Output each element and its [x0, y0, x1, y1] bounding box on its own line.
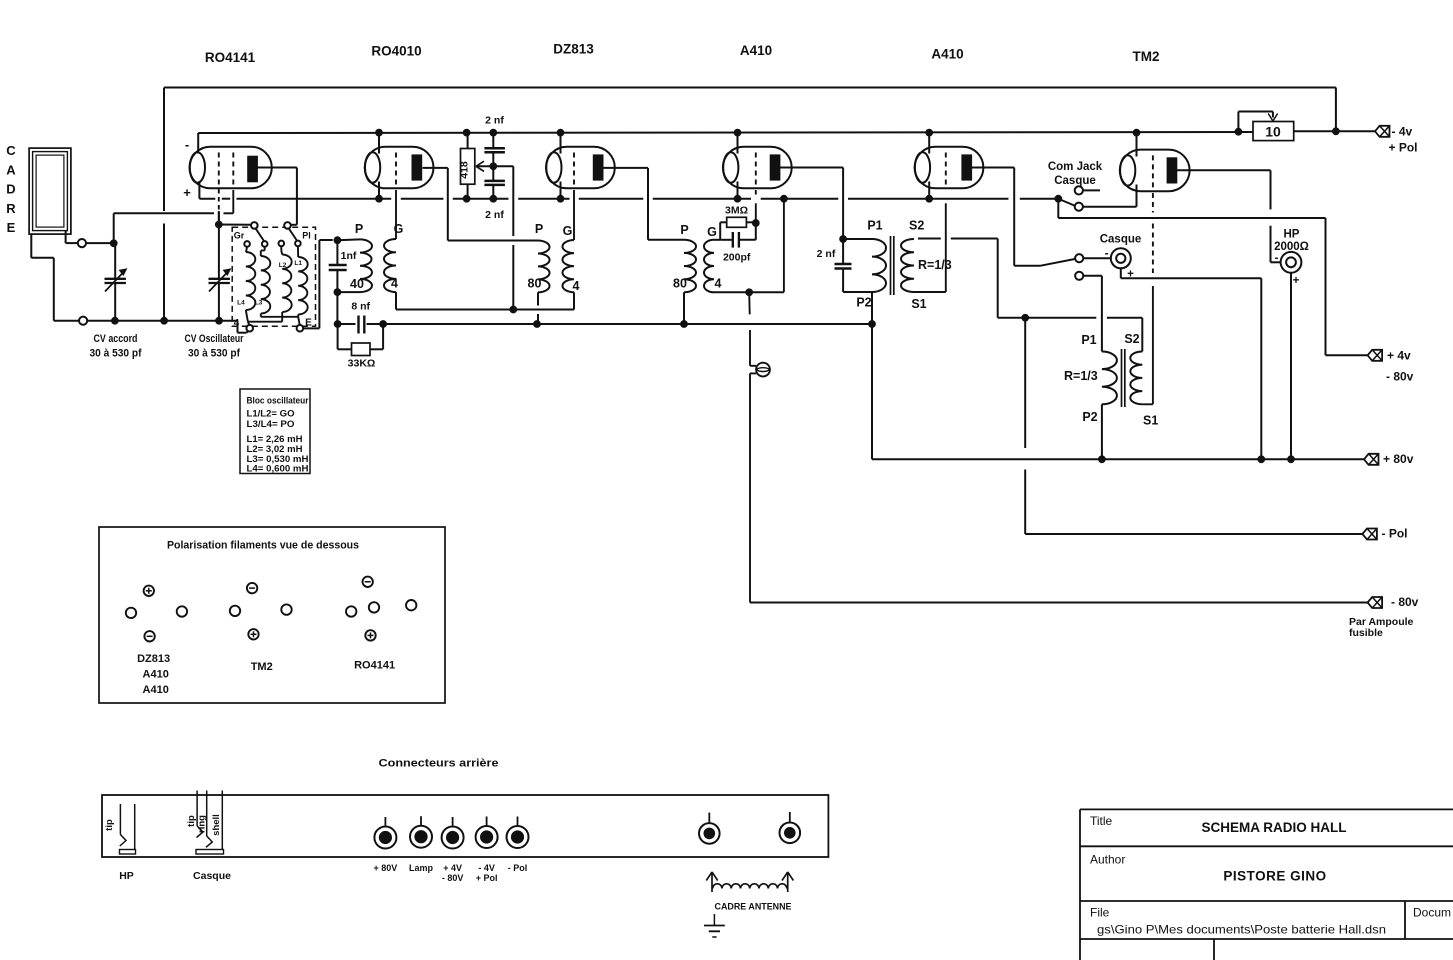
- binding post +4V -80V: [442, 817, 464, 849]
- svg-text:P2: P2: [856, 296, 871, 310]
- svg-text:80: 80: [673, 277, 687, 291]
- svg-text:-: -: [185, 137, 189, 152]
- svg-text:P: P: [535, 222, 543, 236]
- svg-text:A410: A410: [931, 47, 963, 62]
- label tube V6 TM2: [1133, 49, 1160, 64]
- svg-text:8 nf: 8 nf: [351, 301, 370, 313]
- tube V1 plate: [248, 156, 258, 182]
- svg-text:4: 4: [391, 277, 398, 291]
- svg-text:- 4V: - 4V: [478, 863, 495, 873]
- svg-text:G: G: [707, 225, 717, 239]
- wire top bus (-4v rail): [164, 88, 1336, 321]
- svg-text:Author: Author: [1090, 853, 1125, 867]
- label P (T2): [535, 222, 543, 236]
- wire T3 secondary bottom return: [714, 199, 784, 296]
- label DZ813 A410 A410: [137, 653, 170, 696]
- transformer T5 secondary: [1130, 352, 1142, 405]
- svg-text:Casque: Casque: [1100, 234, 1142, 246]
- label P (T3): [680, 223, 688, 237]
- junction dots on filament bottom bus: [375, 195, 1062, 203]
- svg-text:DZ813: DZ813: [137, 653, 170, 665]
- wire AVC line: [396, 306, 574, 314]
- transformer T5 core: [1122, 349, 1125, 407]
- label Com Jack Casque: [1048, 161, 1103, 187]
- capacitor CV Oscillateur (variable): [209, 212, 231, 321]
- svg-text:Connecteurs arrière: Connecteurs arrière: [379, 758, 499, 770]
- label 4: [234, 318, 240, 329]
- wire terminal E to T1 node: [303, 240, 333, 328]
- label CV accord value: [90, 333, 142, 360]
- capacitor 8 nf: [338, 316, 387, 334]
- label HP 2000: [1274, 229, 1309, 254]
- svg-text:tip: tip: [186, 815, 197, 827]
- svg-text:DZ813: DZ813: [553, 42, 594, 57]
- label P2 (T5): [1082, 410, 1097, 424]
- label P2 (T4): [856, 296, 871, 310]
- svg-text:C: C: [6, 143, 16, 158]
- wire V6 filament top: [1136, 132, 1138, 156]
- rheostat 10: [1235, 112, 1294, 141]
- label 80 (T3): [673, 277, 687, 291]
- binding post Lamp: [410, 816, 432, 848]
- label R=1/3 (T4): [918, 258, 952, 272]
- wire CADRE inner end to top terminal: [66, 231, 78, 244]
- terminal CADRE top: [78, 239, 86, 247]
- terminal coil tap 1: [244, 241, 250, 247]
- label 4 (T3): [715, 277, 722, 291]
- wire L4-L2 bottom link: [246, 310, 282, 325]
- wire V2 filament top: [378, 133, 380, 154]
- label tube V4 A410: [740, 43, 772, 58]
- diagram box Polarisation filaments: [99, 527, 445, 703]
- label CV Oscillateur value: [185, 333, 245, 360]
- inductor L1: [298, 246, 308, 314]
- svg-text:+ 4v: + 4v: [1387, 349, 1411, 363]
- wire wiper to AVC junction: [493, 166, 513, 309]
- label 8 nf: [351, 301, 370, 313]
- label CADRE ANTENNE: [715, 902, 792, 913]
- label P (T1): [355, 222, 363, 236]
- wire V4 filament top: [737, 133, 739, 154]
- transformer T1 secondary 4: [384, 239, 396, 292]
- label Connecteurs arriere: [379, 758, 499, 770]
- svg-text:File: File: [1090, 906, 1110, 920]
- label P1 (T4): [867, 219, 882, 233]
- wire V5 plate to casque switch: [972, 168, 1076, 266]
- capacitor 1nf: [329, 240, 347, 292]
- wire filament top bus: [198, 132, 1253, 133]
- svg-text:Lamp: Lamp: [409, 863, 434, 873]
- wire V1 grid2 to tuning node: [114, 190, 234, 243]
- label V1 filament +: [183, 185, 191, 200]
- transformer T3 primary 80: [684, 240, 696, 293]
- svg-text:R=1/3: R=1/3: [1064, 369, 1098, 383]
- svg-text:3MΩ: 3MΩ: [725, 205, 748, 217]
- label 2 nf (T4): [817, 248, 836, 260]
- tube V6 TM2: [1120, 150, 1190, 192]
- svg-text:- Pol: - Pol: [1382, 527, 1408, 541]
- wire switch to +4v feed line: [1058, 199, 1367, 356]
- label Title: [1090, 814, 1347, 835]
- svg-text:RO4141: RO4141: [205, 50, 256, 65]
- label Casque connector: [193, 870, 231, 882]
- svg-text:L4= 0,600 mH: L4= 0,600 mH: [247, 464, 309, 474]
- svg-text:E: E: [305, 318, 312, 329]
- wire V5 filament top: [928, 133, 930, 154]
- svg-text:SCHEMA RADIO HALL: SCHEMA RADIO HALL: [1202, 819, 1347, 835]
- tube V1 RO4141 (bigrille): [190, 147, 272, 189]
- wire V6 filament bottom to jack switch: [1083, 185, 1136, 207]
- label 80 (T2): [528, 277, 542, 291]
- rheostat 418: [459, 133, 475, 199]
- svg-text:200pf: 200pf: [723, 252, 751, 264]
- svg-text:P1: P1: [867, 219, 882, 233]
- wire V5 filament bottom: [928, 182, 930, 199]
- svg-text:TM2: TM2: [1133, 49, 1160, 64]
- svg-text:+ Pol: + Pol: [476, 873, 498, 883]
- terminal oscillator E: [297, 325, 304, 332]
- svg-text:Bloc oscillateur: Bloc oscillateur: [247, 396, 309, 406]
- svg-text:- 80v: - 80v: [1386, 370, 1414, 384]
- svg-text:P: P: [355, 222, 363, 236]
- svg-text:- 4v: - 4v: [1392, 124, 1413, 138]
- wire V4 plate to T4 primary: [779, 168, 843, 240]
- svg-text:S1: S1: [911, 297, 926, 311]
- binding post cadre left: [699, 813, 720, 844]
- terminal coil tap 3: [279, 241, 285, 247]
- antenna cadre coil symbol: [706, 872, 793, 892]
- label 1nf: [341, 250, 357, 262]
- wire Pl selector lever: [289, 228, 298, 241]
- svg-text:2 nf: 2 nf: [485, 209, 504, 221]
- wire CADRE outer end to bottom terminal: [31, 234, 79, 321]
- wire V3 filament bottom: [560, 182, 562, 199]
- label 200pf: [723, 252, 751, 264]
- svg-text:L3= 0,530 mH: L3= 0,530 mH: [247, 454, 309, 464]
- svg-text:D: D: [6, 182, 15, 197]
- svg-text:80: 80: [528, 277, 542, 291]
- svg-text:A410: A410: [143, 669, 169, 681]
- wire -Pol line: [1025, 318, 1362, 534]
- wire antenna node to CV accord: [86, 239, 118, 247]
- terminal -80v: [1349, 595, 1419, 639]
- oscillator block dashed box: [232, 227, 315, 326]
- wire V3 plate to T3 primary: [603, 168, 684, 240]
- socket DZ813/A410 pins: [126, 586, 187, 642]
- svg-text:4: 4: [573, 279, 580, 293]
- svg-text:PISTORE GINO: PISTORE GINO: [1223, 869, 1326, 884]
- svg-text:RO4141: RO4141: [354, 660, 395, 672]
- wire T5 P2 to 80v bus: [1101, 404, 1103, 459]
- tube V5 A410 output: [915, 147, 984, 189]
- svg-text:L1= 2,26 mH: L1= 2,26 mH: [247, 434, 303, 444]
- tube V3 DZ813: [546, 147, 615, 189]
- node T1 top (P/1nf junction): [334, 236, 361, 244]
- svg-text:-: -: [1105, 248, 1109, 260]
- svg-text:HP: HP: [119, 870, 134, 882]
- panel rear connectors: [102, 795, 828, 857]
- wire 80v bus: [872, 455, 1364, 463]
- wire V3 filament top: [560, 133, 562, 154]
- wire T2 secondary bottom to AVC: [573, 292, 575, 309]
- label tube V2 RO4010: [371, 44, 421, 59]
- svg-text:- 80v: - 80v: [1391, 595, 1419, 609]
- wire Gr selector lever: [256, 228, 265, 241]
- terminal -Pol: [1362, 527, 1407, 541]
- svg-text:33KΩ: 33KΩ: [348, 358, 376, 370]
- svg-text:1nf: 1nf: [341, 250, 357, 262]
- svg-text:-: -: [1275, 253, 1279, 265]
- label P1 (T5): [1081, 333, 1096, 347]
- capacitor 2 nf upper: [484, 133, 505, 167]
- wire -Pol junction to T5 S2: [1025, 318, 1142, 352]
- svg-text:G: G: [563, 224, 573, 238]
- ground symbol: [704, 914, 725, 937]
- svg-text:30 à 530 pf: 30 à 530 pf: [90, 348, 142, 360]
- label RO4141 socket: [354, 660, 395, 672]
- transformer T5 primary: [1102, 352, 1117, 405]
- svg-text:CV Oscillateur: CV Oscillateur: [185, 333, 245, 345]
- terminal oscillator Gr: [251, 222, 258, 229]
- svg-text:L1/L2= GO: L1/L2= GO: [247, 409, 295, 419]
- svg-text:+ 4V: + 4V: [443, 863, 462, 873]
- svg-text:A: A: [6, 162, 16, 177]
- text box Bloc oscillateur: [240, 389, 310, 474]
- wire T3 primary bottom to HT rail: [683, 292, 685, 324]
- svg-text:30 à 530 pf: 30 à 530 pf: [188, 348, 240, 360]
- label 4 (T1): [391, 277, 398, 291]
- svg-text:TM2: TM2: [251, 661, 273, 673]
- svg-text:P2: P2: [1082, 410, 1097, 424]
- svg-text:S2: S2: [909, 219, 924, 233]
- svg-text:gs\Gino P\Mes documents\Poste: gs\Gino P\Mes documents\Poste batterie H…: [1097, 923, 1386, 937]
- svg-text:shell: shell: [211, 814, 222, 836]
- binding post -Pol: [507, 817, 529, 849]
- tube V4 A410 detector: [723, 147, 792, 189]
- label L2: [279, 262, 287, 269]
- wire L3-L1 bottom link: [261, 314, 300, 325]
- terminal CADRE bottom: [79, 317, 87, 325]
- transformer T2 primary 80: [538, 241, 550, 293]
- wire -80v line: [750, 602, 1368, 604]
- wire V1 filament top to bus: [197, 133, 199, 154]
- switch com jack contact bottom: [1075, 203, 1083, 211]
- svg-text:- 80V: - 80V: [442, 873, 464, 883]
- wire V6 grid to T5 S1: [1142, 193, 1153, 404]
- svg-text:L2: L2: [279, 262, 287, 269]
- wire T2 primary bottom to HT rail: [537, 292, 539, 324]
- label S2 (T4): [909, 219, 924, 233]
- svg-text:+ Pol: + Pol: [1389, 140, 1418, 154]
- connector HP jack symbol: [104, 804, 136, 854]
- label Pl: [302, 231, 311, 241]
- resistor 3M grid leak: [727, 217, 747, 227]
- wire V3 grid to T2 secondary: [573, 190, 575, 240]
- node grid leak right: [746, 219, 759, 240]
- svg-text:+ 80V: + 80V: [374, 863, 398, 873]
- svg-text:+: +: [1293, 275, 1300, 287]
- wire V5 grid to T4 S1: [914, 203, 946, 292]
- tube V2 RO4010: [365, 147, 434, 189]
- svg-text:2 nf: 2 nf: [817, 248, 836, 260]
- label S1 (T5): [1143, 414, 1158, 428]
- transformer T2 secondary 4: [562, 240, 574, 292]
- jack HP: [1275, 252, 1302, 287]
- junction dots on filament top bus: [375, 129, 1140, 137]
- label File: [1090, 906, 1386, 937]
- label Gr: [234, 231, 245, 241]
- svg-text:40: 40: [350, 277, 364, 291]
- svg-text:CADRE ANTENNE: CADRE ANTENNE: [715, 902, 792, 913]
- transformer T4 core: [891, 236, 894, 295]
- svg-text:R=1/3: R=1/3: [918, 258, 952, 272]
- label V1 filament -: [185, 137, 189, 152]
- label 40: [350, 277, 364, 291]
- wire T4 S2 to -Pol junction: [918, 239, 1029, 322]
- capacitor 2 nf (T4): [835, 239, 873, 292]
- label G (T3): [707, 225, 717, 239]
- label G (T1): [394, 222, 404, 236]
- svg-text:G: G: [394, 222, 404, 236]
- wire T1 secondary bottom to AVC line: [395, 292, 397, 309]
- svg-text:Polarisation filaments vue de: Polarisation filaments vue de dessous: [167, 540, 359, 552]
- label 33K value: [348, 358, 376, 370]
- title block frame: [1080, 809, 1453, 960]
- wire T4 P2 to HT rail and 80v bus: [871, 292, 873, 459]
- label 2 nf upper: [485, 115, 504, 127]
- svg-text:S2: S2: [1124, 332, 1139, 346]
- svg-text:L1: L1: [294, 260, 302, 267]
- capacitor CV accord (variable): [105, 243, 127, 320]
- terminal coil tap 2: [262, 241, 268, 247]
- label S2 (T5): [1124, 332, 1139, 346]
- svg-text:418: 418: [459, 161, 471, 179]
- switch com jack lever: [1058, 199, 1075, 206]
- svg-text:Gr: Gr: [234, 231, 245, 241]
- inductor L4: [246, 247, 256, 310]
- label CADRE: [6, 143, 16, 235]
- node T4 P1 top: [839, 235, 872, 243]
- node 2nf midpoint wiper: [476, 161, 497, 171]
- inductor L3: [261, 247, 271, 314]
- svg-text:R: R: [6, 201, 16, 216]
- lamp ampoule fusible: [749, 292, 770, 602]
- switch casque contact bottom: [1075, 272, 1102, 280]
- label L1: [294, 260, 302, 267]
- svg-text:HP: HP: [1284, 229, 1300, 241]
- transformer T4 secondary: [901, 239, 914, 292]
- labels binding posts: [374, 863, 528, 883]
- label Casque jack: [1100, 234, 1142, 246]
- wire switch to T5 P1: [1101, 276, 1103, 352]
- svg-text:L4: L4: [237, 300, 245, 307]
- svg-text:Casque: Casque: [1054, 175, 1096, 187]
- label S1 (T4): [911, 297, 926, 311]
- svg-text:L3/L4= PO: L3/L4= PO: [247, 419, 295, 429]
- terminal coil tap 4: [295, 241, 301, 247]
- switch com jack contact top: [1075, 186, 1100, 194]
- socket TM2 pins: [230, 583, 292, 640]
- jack Casque: [1105, 248, 1135, 281]
- svg-text:- Pol: - Pol: [508, 863, 528, 873]
- svg-text:L3: L3: [255, 300, 263, 307]
- terminal oscillator Pl: [284, 222, 291, 229]
- svg-text:E: E: [7, 220, 16, 235]
- svg-text:fusible: fusible: [1349, 627, 1383, 639]
- svg-text:4: 4: [715, 277, 722, 291]
- inductor L2: [281, 246, 291, 312]
- socket RO4141 pins: [346, 577, 416, 641]
- wire bottom tuning rail: [87, 317, 237, 325]
- wire 1nf node down to HT rail: [334, 292, 342, 328]
- terminal +4v -80v: [1368, 349, 1414, 384]
- svg-text:Pl: Pl: [302, 231, 311, 241]
- capacitor 200pf: [720, 232, 756, 248]
- transformer T3 secondary 4: [704, 240, 714, 293]
- svg-text:A410: A410: [143, 684, 169, 696]
- node T1 bottom: [334, 288, 361, 296]
- label G (T2): [563, 224, 573, 238]
- svg-text:+ 80v: + 80v: [1383, 452, 1414, 466]
- wire casque + to 80v bus: [1121, 268, 1262, 459]
- svg-text:+: +: [183, 185, 191, 200]
- label 4 (T2): [573, 279, 580, 293]
- label L3: [255, 300, 263, 307]
- svg-text:CV accord: CV accord: [94, 333, 138, 345]
- transformer T4 primary: [872, 239, 886, 292]
- svg-text:tip: tip: [104, 819, 115, 831]
- svg-text:Com Jack: Com Jack: [1048, 161, 1103, 173]
- svg-text:Casque: Casque: [193, 870, 231, 882]
- label Author: [1090, 853, 1327, 884]
- antenna CADRE loop: [29, 148, 71, 234]
- connector Casque jack symbol: [186, 791, 224, 855]
- label tube V1 RO4141: [205, 50, 256, 65]
- wire V1 filament bottom to bus: [198, 182, 200, 199]
- wire rheostat to -4v terminal: [1294, 127, 1375, 135]
- label E: [305, 318, 312, 329]
- svg-text:S1: S1: [1143, 414, 1158, 428]
- binding post -4V +Pol: [476, 817, 498, 849]
- terminal +80v: [1364, 452, 1414, 466]
- svg-text:Docum: Docum: [1413, 906, 1451, 920]
- wire filament bottom bus: [199, 198, 1058, 200]
- svg-text:P: P: [680, 223, 688, 237]
- transformer T1 primary 40: [360, 239, 372, 292]
- svg-text:P1: P1: [1081, 333, 1096, 347]
- wire V4 grid to grid-leak node: [755, 190, 757, 223]
- binding post cadre right: [780, 812, 801, 843]
- wire HP + to 80v bus: [1290, 273, 1292, 460]
- label tube V3 DZ813: [553, 42, 594, 57]
- wire V4 filament bottom: [737, 182, 739, 199]
- wire V6 plate to HP jack: [1176, 170, 1281, 262]
- label 2 nf lower: [485, 209, 504, 221]
- svg-text:RO4010: RO4010: [371, 44, 421, 59]
- label 3M value: [725, 205, 748, 217]
- label HP connector: [119, 870, 134, 882]
- wire tuning rail to terminal 4: [238, 321, 249, 333]
- wire HT rail (80v feed): [383, 320, 876, 328]
- svg-text:Title: Title: [1090, 814, 1113, 828]
- svg-text:L2= 3,02 mH: L2= 3,02 mH: [247, 444, 303, 454]
- label TM2 socket: [251, 661, 273, 673]
- terminal -4v +Pol: [1375, 124, 1418, 154]
- wire grid leak left node: [714, 222, 727, 240]
- wire V2 grid to T1 secondary: [395, 190, 397, 239]
- switch casque contact top: [1075, 254, 1110, 262]
- resistor 33K: [338, 324, 384, 356]
